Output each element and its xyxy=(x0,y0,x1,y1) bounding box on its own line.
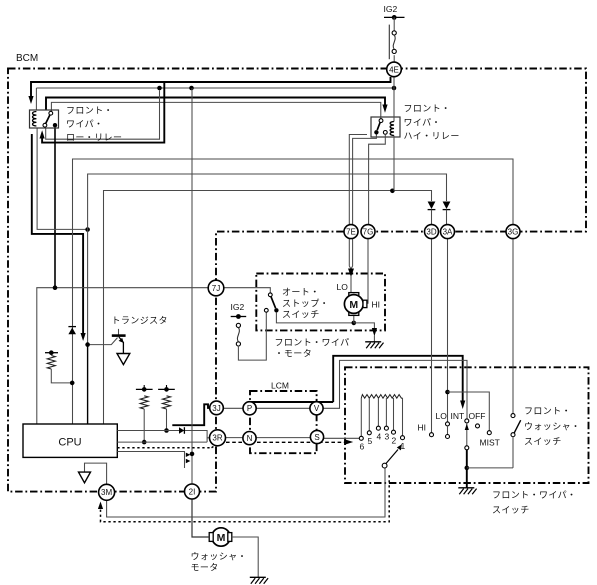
svg-text:ワイパ・: ワイパ・ xyxy=(404,118,441,128)
wire breaker to 4E xyxy=(393,55,395,62)
svg-text:HI: HI xyxy=(372,300,381,310)
wire 7J line (CPU to auto-stop switch) xyxy=(37,288,209,424)
arrow into low relay xyxy=(28,96,33,104)
svg-text:ウォッシャ・: ウォッシャ・ xyxy=(191,552,247,562)
svg-text:フロント・: フロント・ xyxy=(66,106,113,116)
svg-text:P: P xyxy=(247,404,252,413)
label HI xyxy=(372,300,381,310)
low relay switch top contact xyxy=(49,111,53,115)
wire auto-stop common to motor return xyxy=(276,312,353,323)
label front washer switch xyxy=(524,406,580,447)
high relay switch lower contact xyxy=(383,131,387,135)
wire 3G to washer switch xyxy=(512,239,514,414)
transistor collector stub xyxy=(118,329,120,337)
label OFF contact xyxy=(469,411,486,421)
connector 7J xyxy=(208,280,224,296)
relay box: front wiper low relay xyxy=(30,110,59,128)
front wiper motor box (dash-dot) xyxy=(256,274,385,331)
svg-text:LO: LO xyxy=(337,282,349,292)
connector 3R xyxy=(210,430,226,446)
svg-text:OFF: OFF xyxy=(469,411,486,421)
wire 4E through high relay coil to junction xyxy=(393,77,395,191)
relay box: front wiper high relay xyxy=(371,117,400,137)
wire emitter down xyxy=(122,342,124,354)
svg-text:INT: INT xyxy=(451,411,465,421)
arrow motor LO feed xyxy=(348,269,354,278)
connector 2I xyxy=(185,484,200,499)
rotary contact 2 xyxy=(392,398,397,446)
svg-text:6: 6 xyxy=(360,442,365,452)
connector 3G xyxy=(506,225,520,239)
rotary contact 5 xyxy=(367,398,372,446)
auto-stop switch lever xyxy=(271,297,276,309)
svg-text:3: 3 xyxy=(385,432,390,442)
wiper switch OFF contact xyxy=(476,424,480,428)
transistor base bar xyxy=(112,334,126,337)
svg-text:トランジスタ: トランジスタ xyxy=(112,316,168,326)
svg-text:5: 5 xyxy=(368,436,373,446)
transistor base wire xyxy=(88,338,118,345)
wire high relay lower contact to 7G xyxy=(369,134,386,224)
junction 3A to MIST branch xyxy=(445,390,450,395)
arrow up into low relay bottom xyxy=(40,130,45,138)
label HI contact xyxy=(418,423,427,433)
junction on 3G net xyxy=(70,381,75,386)
diode into 3A xyxy=(443,202,451,225)
dashed wire 3R to rotary switch xyxy=(226,441,345,443)
svg-text:CPU: CPU xyxy=(58,437,81,449)
arrow motor ground xyxy=(372,328,377,336)
connector 3M xyxy=(99,484,115,500)
arrow into wiper switch INT xyxy=(460,401,465,410)
connector V xyxy=(310,402,323,415)
washer switch lever xyxy=(514,420,521,433)
svg-text:ワイパ・: ワイパ・ xyxy=(66,119,103,129)
transistor emitter with arrow xyxy=(119,337,124,343)
label IG2 middle xyxy=(231,302,245,312)
svg-text:スイッチ: スイッチ xyxy=(492,505,530,515)
wire 3R to N xyxy=(226,437,243,439)
wire resistor to 3G-net junction xyxy=(51,369,72,383)
wire N to S xyxy=(256,437,310,439)
arrow into high relay xyxy=(382,105,387,113)
junction motor return xyxy=(352,321,357,326)
wire 7G to motor HI tab xyxy=(367,239,368,304)
svg-text:7E: 7E xyxy=(346,227,356,236)
label LO xyxy=(337,282,349,292)
junction FET drain xyxy=(190,452,195,457)
diode on 3G net xyxy=(68,327,76,335)
power stub for resistor R-b xyxy=(136,385,153,392)
svg-text:V: V xyxy=(314,404,320,413)
svg-text:IG2: IG2 xyxy=(384,4,398,14)
auto-stop switch lower contact xyxy=(264,308,268,312)
wire R-b to CPU net y=442 xyxy=(143,409,145,442)
svg-text:ハイ・リレー: ハイ・リレー xyxy=(404,131,460,141)
wire high relay frame to 7E pair xyxy=(349,135,367,225)
high relay switch top contact xyxy=(379,119,383,123)
svg-text:ストップ・: ストップ・ xyxy=(282,299,329,309)
arrow down at transistor base node xyxy=(81,333,86,341)
wire bus y=174 (to 3A via diode) xyxy=(88,174,447,345)
svg-text:フロント・: フロント・ xyxy=(404,104,451,114)
wire bus y=190.5 (CPU to 3D via diode, ties high relay coil) xyxy=(104,191,432,425)
svg-text:LCM: LCM xyxy=(271,381,289,391)
svg-text:フロント・ワイパ・: フロント・ワイパ・ xyxy=(492,490,576,500)
rotary contact 4 xyxy=(376,398,381,442)
label LCM xyxy=(271,381,289,391)
chassis-ground triangle at transistor xyxy=(117,354,130,365)
rotary contact 3 xyxy=(384,398,389,442)
wire thick 3J to CPU area xyxy=(172,404,210,425)
svg-text:フロント・: フロント・ xyxy=(524,406,571,416)
connector 7G xyxy=(361,225,375,239)
wire thick y=97.5 (low relay to high relay arrow) xyxy=(46,98,385,111)
label auto-stop switch xyxy=(282,287,329,320)
connector 4E xyxy=(387,62,402,77)
svg-text:スイッチ: スイッチ xyxy=(524,437,562,447)
label INT contact xyxy=(451,411,465,421)
washer switch upper contact xyxy=(511,414,515,418)
wire 2I to washer motor xyxy=(192,499,209,537)
wire 3M to wiper park pivot (solid) xyxy=(107,468,385,517)
connector 3D xyxy=(425,225,439,239)
wire S to rotary contact 6 xyxy=(324,437,360,439)
wire CPU to 3R (with diode) xyxy=(117,431,209,443)
connector 3J xyxy=(210,401,224,415)
LCM box (dash-dot) xyxy=(250,391,317,453)
wire INT common to ground (thick) xyxy=(466,450,468,488)
svg-text:MIST: MIST xyxy=(480,438,500,448)
svg-text:4E: 4E xyxy=(389,65,399,74)
junction INT common xyxy=(465,466,470,471)
label front wiper high relay xyxy=(404,104,460,142)
label CPU xyxy=(58,437,81,449)
resistor R-c xyxy=(163,396,171,409)
low relay switch lever contact xyxy=(43,123,47,127)
svg-text:M: M xyxy=(349,299,358,311)
low relay switch common contact xyxy=(53,123,57,127)
svg-text:HI: HI xyxy=(418,423,427,433)
svg-text:モータ: モータ xyxy=(191,563,219,573)
washer switch lower contact xyxy=(511,433,515,437)
rotary switch resistor ladder xyxy=(361,395,402,399)
svg-text:スイッチ: スイッチ xyxy=(282,310,320,320)
wiper switch HI contact xyxy=(430,239,434,437)
wiper switch MIST contact xyxy=(487,431,491,435)
resistor R-a (to 3G net) xyxy=(47,356,55,370)
ground below motor box xyxy=(365,342,383,349)
svg-text:3M: 3M xyxy=(101,488,112,497)
svg-text:3R: 3R xyxy=(212,434,222,443)
svg-text:2I: 2I xyxy=(189,487,196,496)
washer motor xyxy=(209,528,232,546)
low relay switch lever xyxy=(46,115,50,123)
junction below 4E xyxy=(392,86,397,91)
dotted wire pivot to 3M arrow xyxy=(101,475,390,522)
junction R-c on 3R net xyxy=(164,428,169,433)
wire motor return to ground xyxy=(354,323,375,328)
wire MIST branch xyxy=(448,392,490,431)
diode into 3D xyxy=(428,202,436,225)
wire low relay common lead (thick, down to 7J line) xyxy=(54,127,56,288)
power source IG2 (top) xyxy=(384,15,405,20)
svg-text:3D: 3D xyxy=(426,227,436,236)
circuit breaker (top) xyxy=(389,25,396,60)
label MIST contact xyxy=(480,438,500,448)
power source IG2 (middle) xyxy=(231,314,247,319)
svg-text:4: 4 xyxy=(377,432,382,442)
connector P xyxy=(243,402,256,415)
connector 3A xyxy=(441,225,455,239)
resistor R-b xyxy=(140,396,148,409)
junction high-relay-coil / 3D-net xyxy=(390,189,395,194)
wire arrow to motor brush xyxy=(350,276,352,293)
connector N xyxy=(243,432,256,445)
label front wiper low relay xyxy=(66,106,122,143)
wiper switch INT contacts xyxy=(465,419,469,450)
auto-stop switch upper contact xyxy=(268,293,272,297)
high relay switch lever xyxy=(377,122,380,130)
wire long vertical IG2-bus to 2I xyxy=(191,88,193,484)
wire low relay coil bottom lead xyxy=(37,128,88,229)
junction low-relay-common on 7J line xyxy=(53,285,58,290)
svg-text:3A: 3A xyxy=(443,227,453,236)
wire IG2 to breaker xyxy=(393,17,395,30)
svg-text:2: 2 xyxy=(392,436,397,446)
wire bus y=159 (CPU to 3G) xyxy=(73,159,514,424)
FET gate arrows xyxy=(186,453,191,464)
wire 3J to P xyxy=(223,407,243,409)
svg-text:3G: 3G xyxy=(508,227,519,236)
svg-text:BCM: BCM xyxy=(16,53,38,64)
BCM module boundary (dash-dot) xyxy=(8,69,586,492)
ground at washer motor xyxy=(250,577,268,584)
wire thick V-net to INT arrow xyxy=(333,356,463,402)
wire P to V thin xyxy=(256,407,310,409)
wire INT common to washer switch xyxy=(467,467,513,469)
svg-text:フロント・ワイパ: フロント・ワイパ xyxy=(275,338,350,348)
junction coil-lead / 3A-net xyxy=(85,227,90,232)
FET gate wire from CPU xyxy=(117,452,184,469)
wire thick CPU drive (left column) xyxy=(32,134,83,333)
label transistor xyxy=(112,316,168,326)
chassis-ground triangle at 3M xyxy=(79,463,107,484)
rotary contact 1 xyxy=(401,398,406,451)
svg-text:ウォッシャ・: ウォッシャ・ xyxy=(524,422,580,432)
label washer motor xyxy=(191,552,247,573)
rotary switch lever with arrow xyxy=(386,444,402,463)
wire low relay lever contact to IG2-bus junction xyxy=(46,90,160,139)
wire arrow to ground xyxy=(373,336,375,342)
low relay coil xyxy=(33,112,37,126)
high relay coil xyxy=(390,122,394,136)
rotary contact 6 xyxy=(359,398,364,452)
svg-text:N: N xyxy=(247,434,253,443)
power stub for resistor R-c xyxy=(158,385,175,392)
wiper switch LO contacts xyxy=(446,239,450,439)
wire 7J to auto-stop contact xyxy=(223,288,270,293)
connector 7E xyxy=(344,225,358,239)
ground below wiper switch xyxy=(458,488,476,495)
connector S xyxy=(310,430,323,443)
wire thick y=82 (4E to low relay, arrow into relay) xyxy=(31,77,391,97)
label LO contact xyxy=(436,411,448,421)
wire IG2 bus y=88 (4E to low relay coil) xyxy=(36,88,394,110)
diode on 3R net xyxy=(179,427,184,434)
rotary switch lever pivot xyxy=(382,463,387,468)
wire thin V to INT contact xyxy=(323,360,467,419)
svg-text:オート・: オート・ xyxy=(282,287,320,297)
wire breaker to auto-stop contact xyxy=(238,312,266,360)
circuit breaker (middle) xyxy=(236,323,240,346)
high relay switch common contact xyxy=(374,130,378,134)
svg-text:S: S xyxy=(314,433,319,442)
wire washer motor to ground xyxy=(232,537,258,577)
wire CPU net y=442 to 3R corner xyxy=(117,441,207,443)
front wiper motor xyxy=(344,293,367,316)
wire motor brush to return xyxy=(353,316,355,323)
junction on IG2 bus xyxy=(157,86,162,91)
arrow dashed into rotary switch xyxy=(345,439,353,444)
resistor pull-up stub near low relay xyxy=(45,350,58,355)
auto-stop switch common xyxy=(274,308,278,312)
junction transistor base node xyxy=(85,342,90,347)
wire P to V thick (upper) xyxy=(251,401,333,403)
CPU box xyxy=(23,424,117,457)
wire thin y=102.4 (low relay contact to high relay contact) xyxy=(51,102,380,118)
wire high relay common to 7E xyxy=(353,135,377,225)
svg-text:・モータ: ・モータ xyxy=(275,349,313,359)
junction R-b on y=442 net xyxy=(142,440,147,445)
svg-text:7J: 7J xyxy=(212,284,220,293)
svg-text:IG2: IG2 xyxy=(231,302,245,312)
wire 7E pair down to motor LO xyxy=(349,239,352,269)
arrow up into 3M xyxy=(98,502,103,510)
svg-text:LO: LO xyxy=(436,411,448,421)
svg-text:M: M xyxy=(217,532,226,544)
svg-text:3J: 3J xyxy=(212,404,220,413)
wire transistor base node to CPU xyxy=(87,345,89,424)
label BCM xyxy=(16,53,38,64)
wire thick from y=82 down and left to relay bottom arrow xyxy=(42,82,164,143)
wire R-c to 3R net xyxy=(166,409,168,431)
label IG2 top xyxy=(384,4,398,14)
label front wiper switch xyxy=(492,490,576,515)
svg-text:7G: 7G xyxy=(363,227,374,236)
dotted wire CPU to 3R xyxy=(117,445,215,448)
junction on IG2 bus xyxy=(189,86,194,91)
svg-text:ロー・リレー: ロー・リレー xyxy=(66,133,122,143)
label front wiper motor xyxy=(275,338,350,359)
wire washer switch to INT common xyxy=(512,437,514,468)
front wiper switch box (dash-dot) xyxy=(345,367,589,483)
